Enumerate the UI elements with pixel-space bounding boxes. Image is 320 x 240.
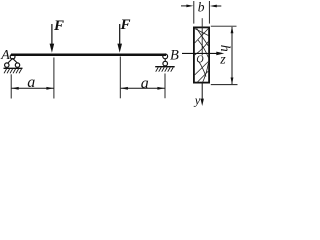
support A rollers <box>5 63 9 67</box>
svg-text:F: F <box>53 18 64 34</box>
svg-text:a: a <box>27 74 35 91</box>
dimension a1 line <box>12 87 54 90</box>
section hatch <box>195 28 209 82</box>
b dim extension line left <box>193 1 195 24</box>
section rectangle <box>194 27 209 82</box>
h dim line with arrows <box>231 26 234 84</box>
h dim bottom extension line <box>211 84 238 86</box>
svg-text:h: h <box>217 45 232 52</box>
dim extension line at F1 <box>53 58 55 99</box>
support B pin circle <box>163 54 168 59</box>
dimension a2 line <box>121 87 165 90</box>
svg-text:b: b <box>198 0 205 15</box>
svg-text:z: z <box>219 52 226 67</box>
section centerline <box>201 18 203 55</box>
b dim left arrow <box>181 5 193 8</box>
support B roller <box>163 61 168 66</box>
h dim top extension line <box>211 25 237 27</box>
support A triangle <box>7 58 18 63</box>
support A ground <box>4 68 23 73</box>
svg-text:A: A <box>0 48 10 63</box>
svg-text:B: B <box>170 47 179 63</box>
force F1 arrow <box>50 24 55 53</box>
b dim extension line right <box>208 1 210 24</box>
support B ground <box>155 67 175 72</box>
support B stem <box>164 58 166 61</box>
svg-text:a: a <box>141 75 149 92</box>
beam <box>11 54 166 56</box>
b dim right arrow <box>210 5 222 8</box>
svg-text:F: F <box>120 17 131 33</box>
svg-text:O: O <box>196 55 203 66</box>
dim extension line at F2 <box>119 57 121 99</box>
force F2 arrow <box>117 24 122 53</box>
z axis <box>182 52 224 56</box>
dim extension line at B <box>164 74 166 99</box>
y axis <box>201 84 204 107</box>
svg-text:y: y <box>193 94 201 108</box>
dim extension line at A <box>10 74 12 98</box>
support A pin circle <box>10 54 15 59</box>
